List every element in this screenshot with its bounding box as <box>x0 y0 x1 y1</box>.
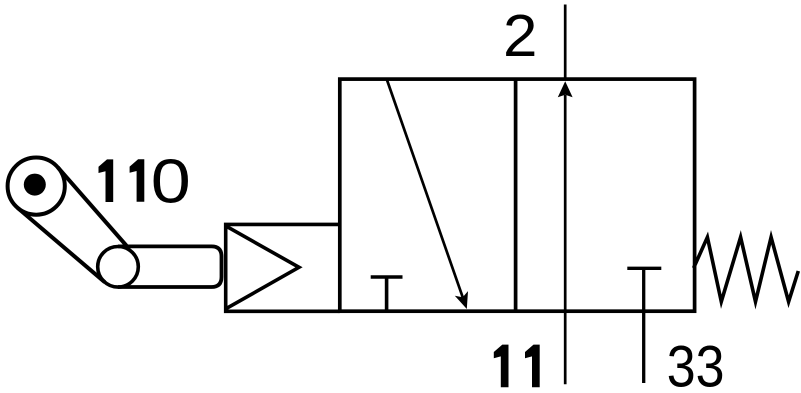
valve position divider <box>514 79 518 311</box>
lever arm upper line <box>58 167 127 246</box>
label 33 <box>667 333 725 393</box>
left box blocked port T stem <box>385 277 389 311</box>
roller axle dot <box>24 174 46 196</box>
port 2 line <box>564 5 567 80</box>
return spring <box>694 237 799 302</box>
left box flow path arrowhead <box>455 291 468 309</box>
svg-text:2: 2 <box>503 2 537 69</box>
left box blocked port T crossbar <box>371 275 403 279</box>
valve body outline <box>340 79 695 311</box>
blocked port 3 T crossbar <box>627 267 661 270</box>
lever pivot circle <box>98 246 139 287</box>
svg-text:33: 33 <box>667 333 725 393</box>
svg-text:0: 0 <box>151 147 191 216</box>
blocked port 3 stem <box>642 268 645 383</box>
flow arrowhead up <box>558 81 573 97</box>
actuator triangle <box>226 226 299 308</box>
flow line 1 to 2 <box>564 95 567 384</box>
lever arm lower line <box>18 208 105 282</box>
actuator box <box>226 224 340 311</box>
left box flow path line <box>387 80 464 300</box>
label 2 <box>503 2 537 69</box>
label 110 <box>99 159 114 202</box>
label 11 <box>494 345 509 388</box>
plunger rod <box>118 246 222 287</box>
roller wheel <box>8 158 65 215</box>
